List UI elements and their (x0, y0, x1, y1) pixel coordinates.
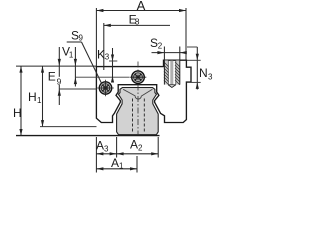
dimension E9 (48, 47, 97, 105)
rail countersink V (123, 89, 152, 99)
dimension N3 (187, 47, 213, 90)
bottom mounting surface line (16, 135, 160, 137)
svg-text:2: 2 (158, 41, 163, 50)
svg-text:9: 9 (57, 76, 62, 86)
svg-text:E: E (48, 70, 56, 84)
dimension A1 (96, 156, 137, 171)
dimension S2 (150, 36, 187, 60)
carriage body outline (96, 60, 191, 122)
svg-text:A: A (137, 0, 146, 13)
top surface extension line (16, 65, 97, 67)
dimension A (96, 0, 186, 66)
svg-text:1: 1 (37, 96, 42, 105)
dimension V1 (62, 45, 129, 87)
dimension A3 (96, 139, 117, 156)
svg-text:9: 9 (79, 34, 84, 43)
rail bolt hole hidden lines (132, 99, 134, 134)
dimension E8 (104, 12, 170, 70)
svg-text:A: A (130, 138, 138, 152)
svg-text:H: H (28, 90, 37, 104)
carriage bolt B1 (97, 80, 114, 97)
svg-text:N: N (199, 66, 208, 80)
S2 threaded hole section (164, 60, 180, 87)
dimension H (13, 66, 23, 135)
svg-text:2: 2 (138, 143, 143, 152)
svg-text:A: A (96, 139, 104, 153)
rail centerline (137, 62, 139, 136)
svg-text:A: A (111, 156, 119, 170)
bottom extension lines (95, 137, 97, 173)
svg-text:3: 3 (104, 145, 109, 154)
label S9 with leader (67, 29, 102, 84)
dimension K3 (97, 48, 117, 83)
svg-text:1: 1 (69, 51, 74, 60)
svg-text:3: 3 (208, 73, 213, 82)
svg-text:8: 8 (135, 17, 140, 27)
dimension H1 (28, 66, 97, 127)
svg-text:H: H (13, 106, 22, 120)
rail cross-section (117, 88, 159, 135)
svg-text:3: 3 (105, 53, 110, 62)
dimension A2 (117, 138, 159, 156)
rail bolt B2 (130, 71, 147, 84)
